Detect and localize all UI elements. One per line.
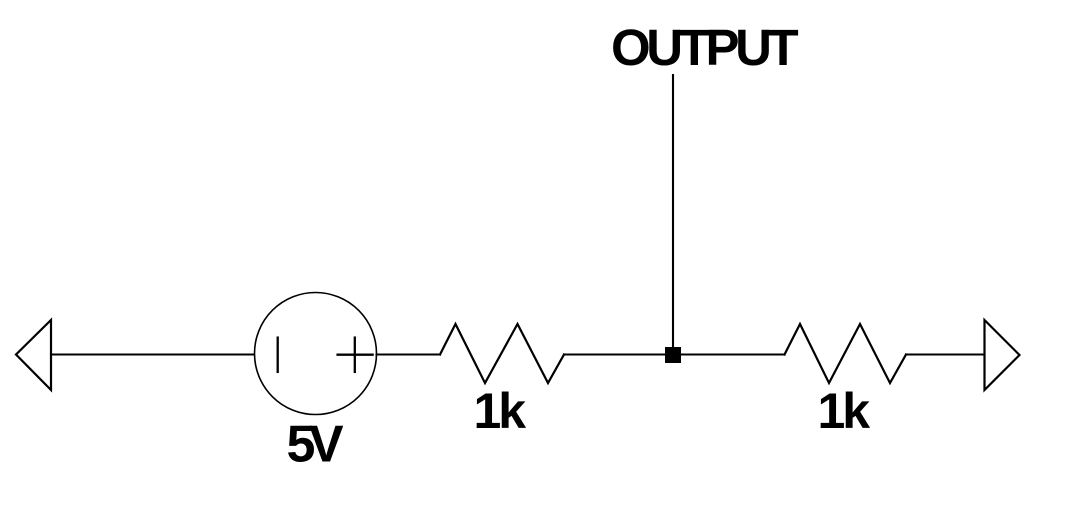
wire: resistor R1 to node OUTPUT: [564, 353, 673, 355]
svg-text:OUTPUT: OUTPUT: [611, 19, 799, 76]
svg-text:1k: 1k: [474, 383, 527, 439]
wire: voltage source to resistor R1: [377, 353, 441, 355]
port arrow left (negative rail): [16, 320, 51, 390]
svg-text:5V: 5V: [287, 416, 344, 474]
wire: resistor R2 to right arrow: [906, 353, 985, 355]
wire: node OUTPUT to resistor R2: [673, 353, 785, 355]
resistor R1 1k (left): [440, 324, 564, 383]
resistor R2 1k (right): [785, 324, 907, 383]
wire: left arrow to voltage source: [51, 353, 255, 355]
voltage source plus mark: [338, 338, 373, 372]
node junction OUTPUT (solid square): [665, 347, 681, 363]
wire: vertical from OUTPUT label to node: [672, 75, 674, 355]
voltage source minus mark: [277, 338, 279, 372]
port arrow right (output rail): [985, 320, 1020, 390]
voltage source V1 5V: circle body: [255, 293, 377, 415]
svg-text:1k: 1k: [818, 383, 871, 439]
